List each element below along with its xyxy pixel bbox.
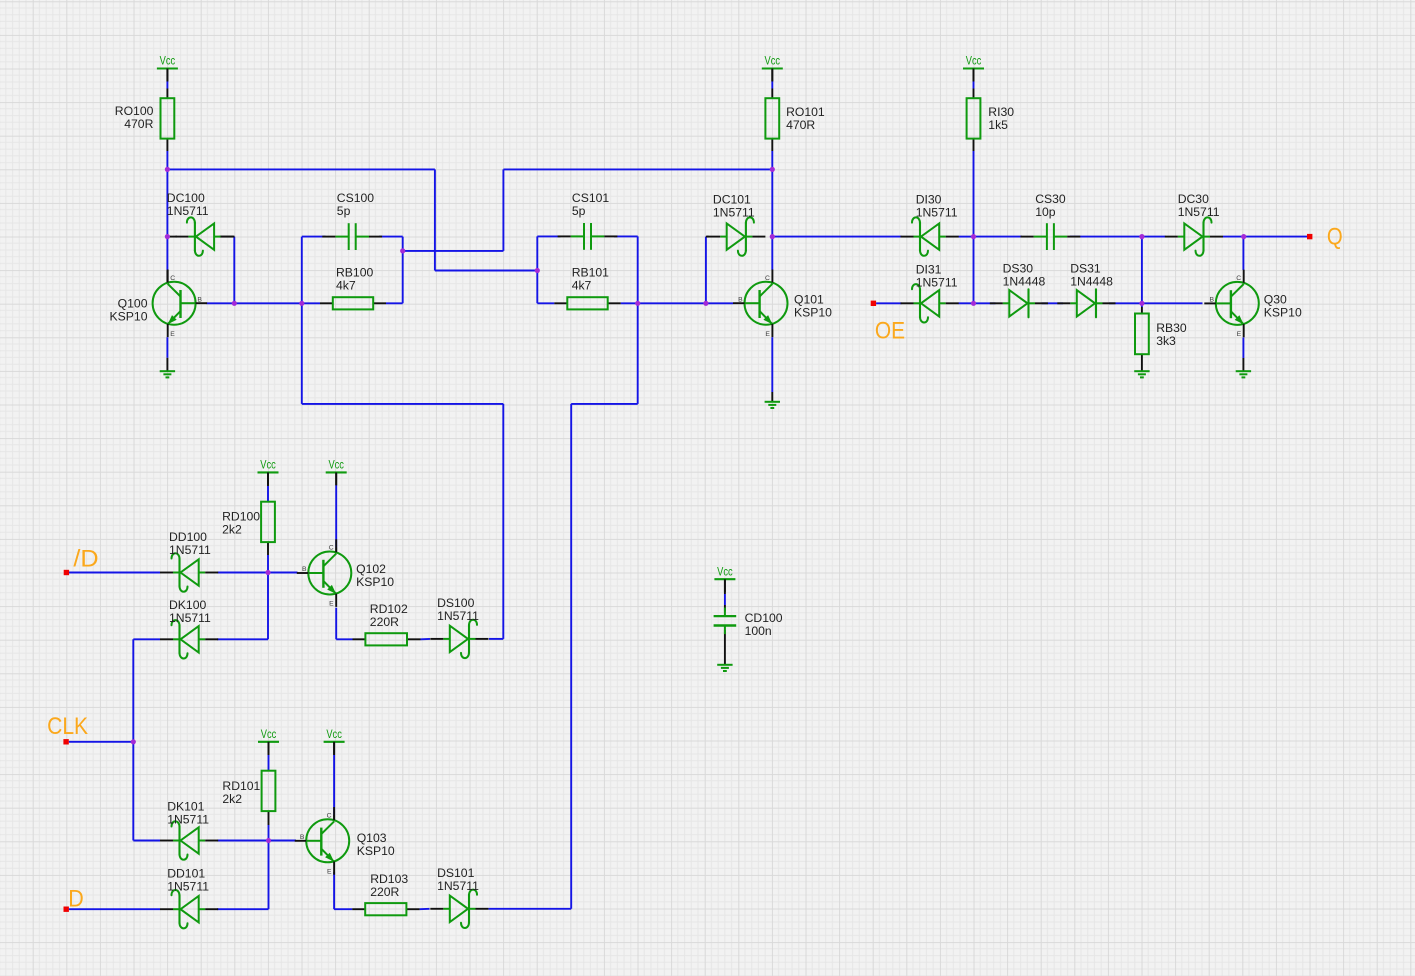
svg-text:DS101: DS101 (437, 866, 474, 880)
svg-text:100n: 100n (745, 624, 772, 638)
svg-text:Vcc: Vcc (160, 56, 176, 68)
svg-text:KSP10: KSP10 (357, 844, 395, 858)
svg-text:DD100: DD100 (169, 530, 207, 544)
svg-text:Vcc: Vcc (717, 566, 733, 578)
svg-text:DK100: DK100 (169, 598, 206, 612)
svg-text:Q: Q (1327, 223, 1343, 250)
svg-text:470R: 470R (124, 117, 153, 131)
svg-text:5p: 5p (337, 204, 351, 218)
svg-text:Q101: Q101 (794, 293, 824, 307)
svg-text:1N5711: 1N5711 (167, 812, 209, 826)
svg-text:1N5711: 1N5711 (916, 206, 958, 220)
svg-text:DC30: DC30 (1178, 192, 1209, 206)
svg-text:DS30: DS30 (1003, 261, 1034, 275)
svg-text:RO100: RO100 (115, 104, 154, 118)
svg-text:2k2: 2k2 (222, 792, 242, 806)
svg-text:1N4448: 1N4448 (1003, 274, 1046, 288)
svg-text:1N5711: 1N5711 (167, 204, 209, 218)
svg-text:DC101: DC101 (713, 193, 751, 207)
svg-text:RD103: RD103 (370, 872, 408, 886)
svg-text:DS31: DS31 (1070, 261, 1101, 275)
svg-text:CLK: CLK (47, 713, 88, 740)
svg-text:RD100: RD100 (222, 509, 260, 523)
svg-text:KSP10: KSP10 (794, 306, 832, 320)
svg-text:KSP10: KSP10 (110, 309, 148, 323)
svg-text:CD100: CD100 (745, 611, 783, 625)
svg-text:CS30: CS30 (1035, 192, 1066, 206)
svg-text:1k5: 1k5 (988, 118, 1008, 132)
svg-text:E: E (170, 331, 175, 338)
svg-text:C: C (327, 813, 332, 820)
svg-text:Vcc: Vcc (966, 56, 982, 68)
svg-text:RI30: RI30 (988, 105, 1014, 119)
svg-text:DS100: DS100 (437, 596, 474, 610)
svg-text:5p: 5p (572, 204, 586, 218)
svg-text:10p: 10p (1035, 205, 1056, 219)
svg-text:1N5711: 1N5711 (169, 611, 211, 625)
svg-text:E: E (765, 331, 770, 338)
svg-text:RB30: RB30 (1156, 321, 1187, 335)
svg-text:OE: OE (875, 317, 905, 344)
svg-text:220R: 220R (370, 615, 399, 629)
svg-text:E: E (327, 869, 332, 876)
svg-text:E: E (329, 601, 334, 608)
svg-text:C: C (1236, 275, 1241, 282)
svg-text:DC100: DC100 (167, 191, 205, 205)
svg-text:1N5711: 1N5711 (916, 275, 958, 289)
svg-text:/D: /D (73, 545, 98, 572)
svg-text:1N5711: 1N5711 (713, 206, 755, 220)
svg-text:DI31: DI31 (916, 262, 942, 276)
svg-text:RB100: RB100 (336, 266, 373, 280)
svg-text:Vcc: Vcc (328, 460, 344, 472)
svg-text:4k7: 4k7 (572, 279, 592, 293)
svg-text:220R: 220R (370, 885, 399, 899)
svg-text:Q102: Q102 (356, 562, 386, 576)
svg-text:CS100: CS100 (337, 191, 374, 205)
svg-text:Q103: Q103 (357, 831, 387, 845)
svg-text:1N4448: 1N4448 (1070, 274, 1113, 288)
svg-text:2k2: 2k2 (222, 522, 242, 536)
svg-text:RO101: RO101 (786, 105, 825, 119)
svg-text:1N5711: 1N5711 (169, 543, 211, 557)
svg-text:1N5711: 1N5711 (437, 609, 479, 623)
svg-text:B: B (738, 296, 743, 303)
svg-text:C: C (329, 545, 334, 552)
svg-text:1N5711: 1N5711 (167, 880, 209, 894)
svg-text:DI30: DI30 (916, 193, 942, 207)
svg-text:Vcc: Vcc (765, 56, 781, 68)
svg-text:C: C (170, 275, 175, 282)
svg-text:CS101: CS101 (572, 191, 609, 205)
svg-text:4k7: 4k7 (336, 279, 356, 293)
svg-text:RB101: RB101 (572, 266, 609, 280)
svg-text:DD101: DD101 (167, 867, 205, 881)
svg-text:3k3: 3k3 (1156, 334, 1176, 348)
svg-text:RD102: RD102 (370, 602, 408, 616)
svg-text:E: E (1237, 331, 1242, 338)
svg-text:B: B (300, 834, 305, 841)
svg-text:1N5711: 1N5711 (437, 879, 479, 893)
svg-text:B: B (197, 296, 202, 303)
svg-text:1N5711: 1N5711 (1178, 205, 1220, 219)
svg-text:Vcc: Vcc (326, 729, 342, 741)
svg-text:D: D (68, 885, 84, 912)
svg-text:Vcc: Vcc (261, 729, 277, 741)
svg-text:Vcc: Vcc (260, 460, 276, 472)
svg-text:Q100: Q100 (118, 296, 148, 310)
svg-text:KSP10: KSP10 (356, 575, 394, 589)
svg-text:KSP10: KSP10 (1264, 306, 1302, 320)
svg-text:B: B (302, 566, 307, 573)
svg-text:DK101: DK101 (167, 799, 204, 813)
svg-text:470R: 470R (786, 118, 815, 132)
svg-text:RD101: RD101 (222, 779, 260, 793)
svg-text:Q30: Q30 (1264, 293, 1287, 307)
svg-text:C: C (765, 275, 770, 282)
svg-text:B: B (1209, 297, 1214, 304)
